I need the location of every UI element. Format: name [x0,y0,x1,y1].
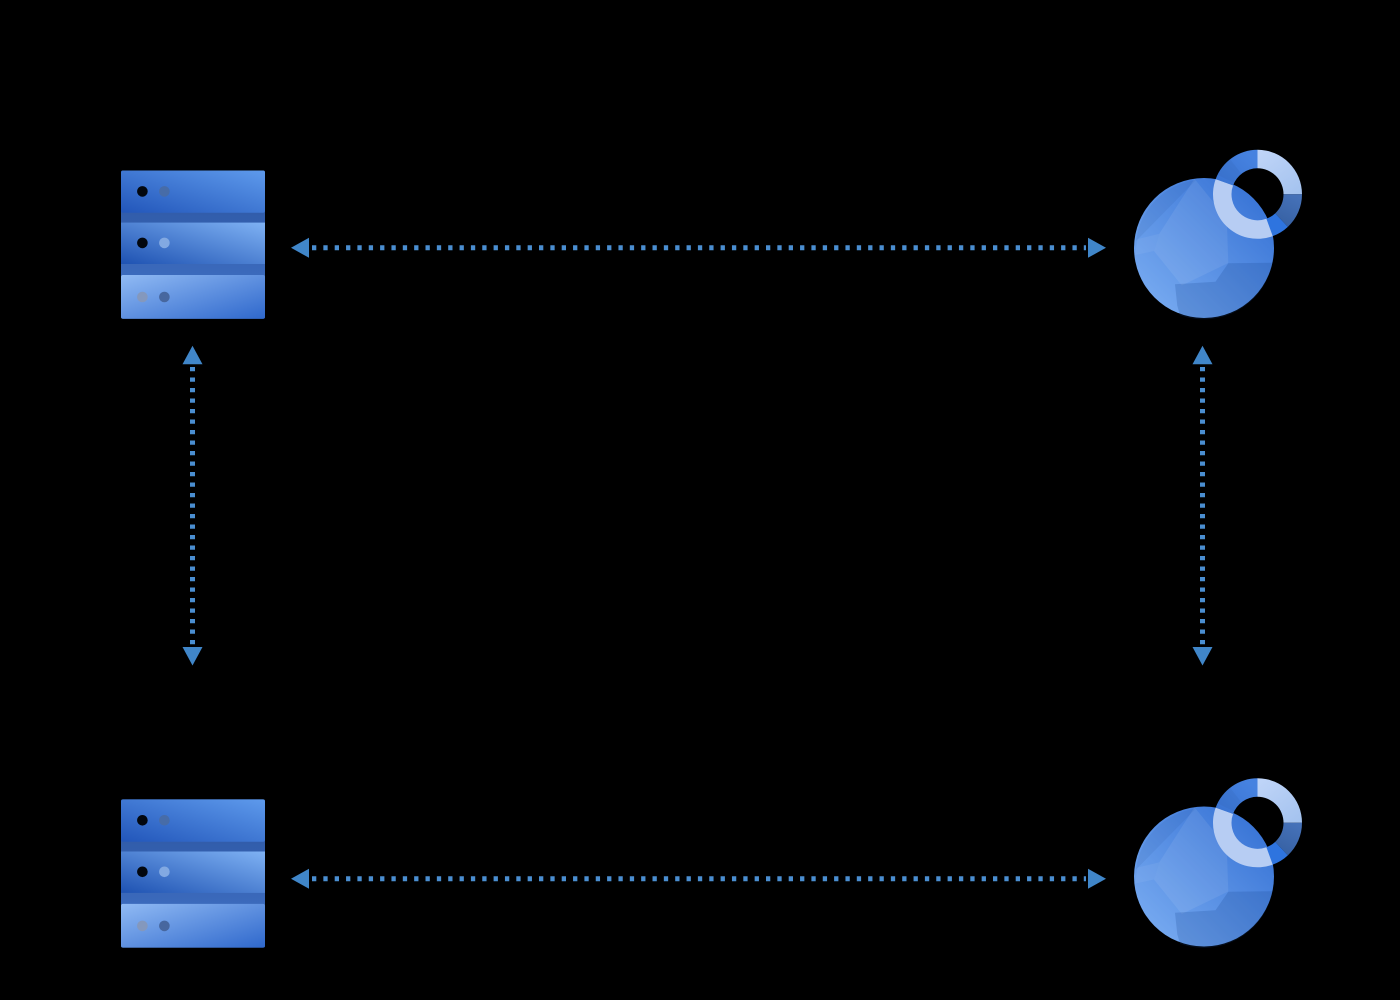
globe icon 1: segmented ring [1213,150,1302,239]
vertical dotted double arrow 2 [1193,346,1213,666]
horizontal dotted double arrow 2 [291,869,1106,889]
globe icon 2: segmented ring [1213,778,1302,867]
server icon 2 [121,799,265,947]
server icon 1 [121,171,265,319]
horizontal dotted double arrow 1 [291,238,1106,258]
vertical dotted double arrow 1 [183,346,203,666]
globe icon 2: faceted sphere [1134,807,1274,948]
globe icon 1: faceted sphere [1134,178,1274,319]
